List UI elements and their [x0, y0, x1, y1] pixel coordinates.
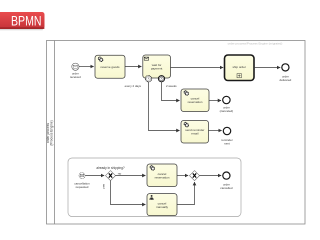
event subprocess container — [68, 158, 241, 217]
svg-text:reservation: reservation — [155, 175, 170, 179]
wire: cancel reservation to order canceled end — [209, 100, 221, 102]
task: cancel manually (user) — [147, 194, 177, 216]
svg-text:(Process Engine): (Process Engine) — [49, 120, 53, 145]
wire: gateway no-branch to cancel reservation (sub) — [116, 175, 146, 177]
end event: order delivered — [280, 64, 292, 82]
gateway: merge (XOR join) — [190, 171, 200, 181]
svg-text:ship order: ship order — [233, 65, 246, 69]
gateway: already in shipping? (XOR split) — [96, 166, 125, 180]
svg-text:requested: requested — [76, 185, 89, 189]
svg-text:delivered: delivered — [280, 78, 292, 82]
boundary timer (interrupting): 2 weeks — [158, 76, 177, 89]
wire: ship order to end — [254, 67, 280, 69]
start event: cancellation requested — [74, 173, 90, 190]
wire: gateway yes-branch to cancel manually — [111, 181, 146, 205]
svg-text:reserve goods: reserve goods — [100, 65, 120, 69]
wire: merge gateway to order cancelled end — [200, 175, 222, 177]
wire: cancellation requested to gateway — [85, 175, 104, 177]
wire: reserve goods to wait for payment — [125, 66, 141, 68]
wire: 2 weeks timer to cancel reservation — [162, 82, 180, 101]
pool label (rotated) — [46, 120, 53, 145]
svg-text:email: email — [191, 131, 199, 135]
svg-text:order process/Process Engine (: order process/Process Engine (migrated) — [228, 42, 283, 46]
wire: start to reserve goods — [79, 66, 94, 68]
svg-text:BPMN: BPMN — [11, 14, 42, 30]
end event: order canceled — [220, 96, 234, 113]
svg-text:no: no — [118, 171, 122, 175]
svg-text:every 2 days: every 2 days — [125, 84, 142, 88]
BPMN red badge — [0, 12, 45, 30]
svg-text:cancelled: cancelled — [220, 186, 233, 190]
svg-text:(canceled): (canceled) — [220, 109, 234, 113]
pool lane divider — [54, 41, 56, 225]
wire: wait for payment to ship order — [171, 67, 224, 69]
svg-text:sent: sent — [224, 142, 230, 146]
svg-text:reservation: reservation — [188, 100, 203, 104]
svg-text:yes: yes — [101, 183, 105, 188]
boundary timer (non-interrupting): every 2 days — [125, 76, 152, 89]
wire: send reminder email to reminder sent end — [209, 130, 222, 132]
task: wait for payment (receive) — [143, 55, 171, 78]
task: reserve goods — [95, 55, 125, 78]
wire: cancel reservation (sub) to merge gateway — [177, 175, 188, 177]
svg-text:payment: payment — [151, 66, 163, 70]
wire: cancel manually to merge gateway — [177, 182, 195, 204]
end event: reminder sent — [221, 127, 232, 145]
svg-text:already in shipping?: already in shipping? — [96, 166, 125, 170]
svg-text:manually: manually — [156, 205, 169, 209]
task: cancel reservation (main) — [181, 89, 209, 112]
end event: order cancelled — [220, 172, 233, 190]
task: send reminder email — [181, 121, 209, 144]
call activity: ship order — [225, 55, 255, 81]
svg-text:2 weeks: 2 weeks — [166, 84, 177, 88]
svg-text:received: received — [70, 75, 81, 79]
pool — [47, 41, 306, 225]
start event: order received — [70, 63, 81, 79]
task: cancel reservation (sub) — [147, 164, 177, 187]
wire: every-2-days timer to send reminder email — [149, 82, 180, 131]
